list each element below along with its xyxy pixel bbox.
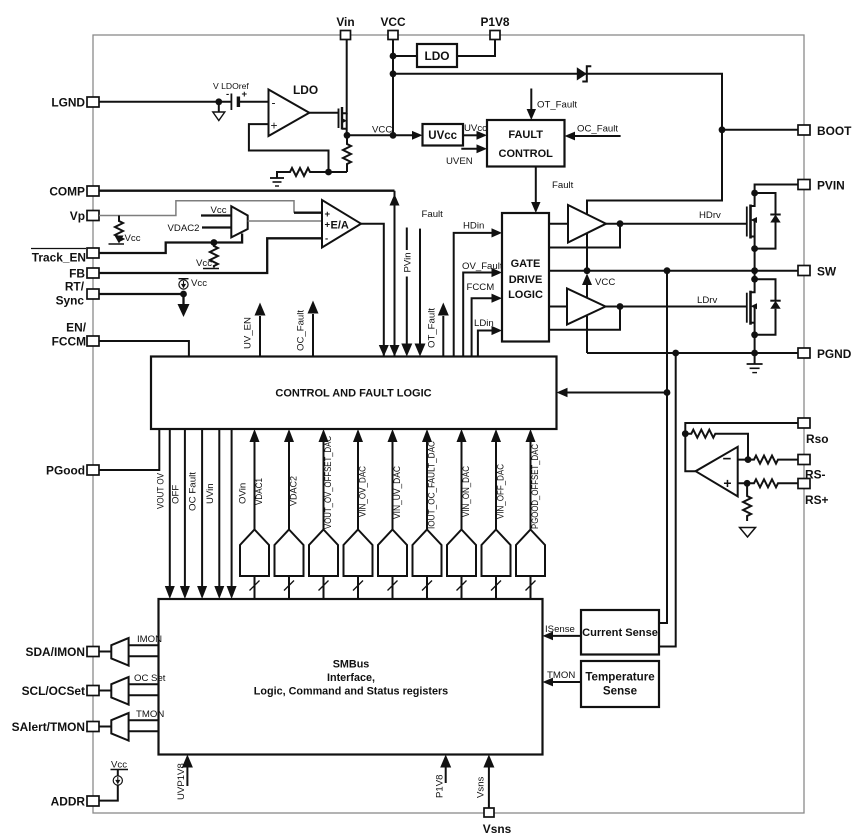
resistor divider top (vertical) bbox=[343, 135, 351, 172]
wire Fault from FAULT CONTROL to GATE DRIVE LOGIC bbox=[535, 167, 537, 204]
DAC mux PGOOD_OFFSET_DAC bbox=[516, 429, 545, 599]
svg-text:PVIN: PVIN bbox=[817, 179, 845, 193]
DAC mux VIN_OV_DAC bbox=[344, 429, 373, 599]
wire OC_Fault into FAULT CONTROL bbox=[574, 135, 621, 137]
svg-text:Vcc: Vcc bbox=[111, 760, 127, 771]
node SW/HS return bbox=[584, 267, 591, 274]
svg-text:-: - bbox=[226, 89, 229, 100]
wire HDin control to gate drive bbox=[454, 233, 493, 357]
svg-text:FCCM: FCCM bbox=[467, 282, 495, 293]
node BOOT junction bbox=[719, 126, 726, 133]
svg-text:LGND: LGND bbox=[51, 96, 85, 110]
chip boundary bbox=[93, 35, 804, 813]
wire PGood from control logic bbox=[99, 429, 159, 470]
wire EN/FCCM to control logic bbox=[99, 341, 189, 357]
pin SAlert/TMON bbox=[12, 720, 99, 734]
svg-text:UVEN: UVEN bbox=[446, 156, 473, 167]
node feedback tap bbox=[325, 169, 332, 176]
svg-text:Vin: Vin bbox=[336, 15, 354, 29]
transistor HS FET bbox=[751, 190, 758, 197]
svg-text:HDrv: HDrv bbox=[699, 210, 721, 221]
svg-text:SMBus: SMBus bbox=[333, 659, 370, 671]
svg-text:UV_EN: UV_EN bbox=[243, 317, 254, 349]
block SMBus bbox=[159, 599, 543, 755]
DAC mux VIN_UV_DAC bbox=[378, 429, 407, 599]
svg-text:CONTROL AND FAULT LOGIC: CONTROL AND FAULT LOGIC bbox=[275, 388, 431, 400]
svg-text:Vcc: Vcc bbox=[196, 258, 212, 269]
svg-text:Sync: Sync bbox=[56, 294, 85, 308]
svg-text:DRIVE: DRIVE bbox=[509, 274, 543, 286]
svg-text:SW: SW bbox=[817, 265, 837, 279]
node VCC/diode bbox=[390, 70, 397, 77]
diode bootstrap bbox=[577, 67, 587, 80]
svg-text:Vcc: Vcc bbox=[125, 233, 141, 244]
svg-text:Fault: Fault bbox=[552, 180, 574, 191]
svg-text:SDA/IMON: SDA/IMON bbox=[26, 645, 85, 659]
ground (signal) below divider bbox=[270, 177, 284, 179]
current source ADDR bbox=[99, 785, 118, 801]
wire OT_Fault out of control logic bbox=[442, 316, 444, 357]
buffer IMON bbox=[99, 651, 111, 653]
wire TMON to SMBus bbox=[552, 681, 581, 683]
wire LS driver return to PGND bbox=[586, 316, 588, 353]
block CONTROL AND FAULT LOGIC bbox=[151, 357, 557, 430]
svg-text:VIN_OFF_DAC: VIN_OFF_DAC bbox=[496, 464, 507, 519]
node VCC/UVcc line bbox=[390, 132, 397, 139]
pin Vin bbox=[336, 15, 354, 40]
wire VCC node to UVcc block bbox=[347, 134, 413, 136]
svg-text:VDAC2: VDAC2 bbox=[289, 476, 300, 506]
wire LDrv bbox=[606, 306, 747, 308]
wire to BOOT pin bbox=[722, 129, 798, 131]
svg-text:VCC: VCC bbox=[595, 277, 615, 288]
op-amp current sense diff amp bbox=[696, 447, 738, 497]
pin Track_EN bbox=[31, 248, 99, 265]
pin VCC bbox=[380, 15, 406, 40]
pin RT/Sync bbox=[56, 280, 99, 308]
pin SW bbox=[798, 265, 837, 279]
resistor Track_EN to Vcc bbox=[210, 243, 218, 268]
wire Vp (gray) to E/A + input bbox=[99, 201, 294, 216]
svg-text:-: - bbox=[272, 96, 276, 110]
svg-text:VIN_ON_DAC: VIN_ON_DAC bbox=[461, 466, 472, 517]
svg-text:PGOOD_OFFSET_DAC: PGOOD_OFFSET_DAC bbox=[530, 444, 541, 529]
pin FB bbox=[69, 267, 99, 281]
ground symbol below VLDOref bbox=[218, 102, 220, 112]
svg-text:Vp: Vp bbox=[70, 209, 85, 223]
wire VCC through bootstrap diode to BOOT bbox=[393, 74, 722, 271]
node VCC (LDO output) bbox=[344, 132, 351, 139]
wire UVcc to FAULT CONTROL bbox=[463, 134, 478, 136]
svg-text:Vcc: Vcc bbox=[211, 205, 227, 216]
svg-text:VIN_UV_DAC: VIN_UV_DAC bbox=[392, 466, 403, 519]
svg-text:FAULT: FAULT bbox=[508, 129, 543, 141]
svg-text:HDin: HDin bbox=[463, 221, 484, 232]
pin Rso bbox=[798, 418, 828, 446]
wire Vcc into mux bbox=[201, 214, 231, 216]
svg-text:CONTROL: CONTROL bbox=[499, 148, 554, 160]
wire VCC to LDO 1.8V block bbox=[393, 55, 417, 57]
wire OVin to SMBus bbox=[231, 429, 233, 586]
svg-text:UVcc: UVcc bbox=[428, 130, 457, 142]
svg-text:−: − bbox=[723, 451, 732, 468]
svg-text:VDAC1: VDAC1 bbox=[254, 478, 265, 505]
svg-text:OC Fault: OC Fault bbox=[188, 472, 199, 511]
svg-text:OT_Fault: OT_Fault bbox=[537, 100, 577, 111]
wire HS source to SW bbox=[754, 249, 756, 280]
block LDO (1.8V) bbox=[417, 44, 457, 67]
mux VDAC2 select bbox=[231, 206, 247, 237]
block GATE DRIVE LOGIC bbox=[502, 213, 549, 342]
svg-text:Rso: Rso bbox=[806, 432, 828, 446]
wire LDO amp output to pass FET gate bbox=[309, 112, 338, 114]
pin Vsns bbox=[483, 808, 512, 836]
resistor Vp pulldown to Vcc bbox=[115, 216, 123, 243]
svg-text:SAlert/TMON: SAlert/TMON bbox=[12, 720, 85, 734]
wire/resistor RS+ input bbox=[738, 479, 798, 487]
wire SW sense to gate drive bbox=[549, 270, 798, 272]
wire LS driver feedback bbox=[549, 307, 620, 330]
wire PGND to Current Sense bbox=[659, 353, 676, 647]
svg-text:OFF: OFF bbox=[170, 485, 181, 504]
wire UVP1V8 into SMBus bbox=[186, 767, 188, 786]
wire E/A output to control logic bbox=[361, 224, 384, 357]
wire OFF to SMBus bbox=[184, 429, 186, 586]
svg-text:OC_Fault: OC_Fault bbox=[296, 310, 307, 351]
wire PGND rail bbox=[587, 352, 798, 354]
svg-text:FB: FB bbox=[69, 267, 85, 281]
wire HDrv bbox=[606, 223, 747, 225]
block UVcc bbox=[423, 124, 464, 146]
resistor feedback bbox=[685, 430, 748, 460]
wire Fault into control logic bbox=[419, 229, 421, 347]
wire VCC rail vertical bbox=[392, 40, 394, 136]
svg-text:Interface,: Interface, bbox=[327, 672, 375, 684]
buffer OCSet bbox=[99, 690, 111, 692]
pin SDA/IMON bbox=[26, 645, 99, 659]
svg-text:VCC: VCC bbox=[380, 15, 406, 29]
svg-text:-: - bbox=[325, 234, 328, 245]
svg-text:PVin: PVin bbox=[402, 252, 413, 272]
svg-text:UVin: UVin bbox=[205, 483, 216, 504]
wire VDAC2 into mux bbox=[202, 226, 231, 228]
wire UV_EN out of control logic bbox=[259, 316, 261, 357]
wire OT_Fault into FAULT CONTROL bbox=[530, 89, 532, 111]
svg-text:+: + bbox=[242, 89, 248, 100]
svg-text:+: + bbox=[271, 119, 278, 133]
wire PVin into control logic bbox=[406, 228, 408, 347]
svg-text:RT/: RT/ bbox=[65, 280, 85, 294]
pin SCL/OCSet bbox=[22, 684, 99, 698]
block Temperature Sense bbox=[581, 661, 659, 707]
svg-text:TMON: TMON bbox=[547, 670, 575, 681]
pin EN/FCCM bbox=[52, 321, 99, 349]
wire mux output to E/A (gray) bbox=[248, 220, 322, 222]
node LGND/VLDOref junction bbox=[215, 98, 222, 105]
svg-text:E/A: E/A bbox=[331, 219, 349, 231]
ground (open) below RS+ resistor bbox=[740, 528, 756, 538]
svg-text:OT_Fault: OT_Fault bbox=[427, 308, 438, 348]
DAC mux VDAC2 bbox=[275, 429, 304, 599]
buffer TMON bbox=[99, 726, 111, 728]
wire OV_Fault control to gate drive bbox=[463, 273, 493, 357]
svg-text:EN/: EN/ bbox=[66, 321, 87, 335]
svg-text:UVP1V8: UVP1V8 bbox=[176, 763, 187, 800]
svg-text:Temperature: Temperature bbox=[585, 671, 655, 684]
transistor LS FET bbox=[751, 276, 758, 283]
svg-text:Fault: Fault bbox=[422, 209, 444, 220]
svg-text:OC Set: OC Set bbox=[134, 673, 166, 684]
pin PVIN bbox=[798, 179, 845, 193]
svg-text:LDrv: LDrv bbox=[697, 295, 717, 306]
svg-text:Vsns: Vsns bbox=[476, 776, 487, 798]
svg-text:ADDR: ADDR bbox=[51, 795, 86, 809]
wire VOUT OV to SMBus bbox=[169, 429, 171, 586]
wire PVIN to HS FET drain bbox=[755, 185, 798, 194]
pin PGood bbox=[46, 464, 99, 478]
svg-text:UVcc: UVcc bbox=[464, 123, 487, 134]
DAC mux VIN_OFF_DAC bbox=[482, 429, 511, 599]
svg-text:COMP: COMP bbox=[49, 185, 85, 199]
wire VCC supply to LS driver bbox=[586, 285, 588, 297]
svg-text:Vcc: Vcc bbox=[191, 278, 207, 289]
pin ADDR bbox=[51, 795, 99, 809]
diode LS body bbox=[755, 279, 776, 335]
pin BOOT bbox=[798, 124, 852, 138]
svg-text:Sense: Sense bbox=[603, 685, 638, 698]
wire ISense tap into control logic bbox=[566, 392, 667, 394]
wire COMP vertical to control logic bbox=[394, 191, 396, 357]
wire SW to Current Sense bbox=[659, 271, 667, 623]
svg-text:VIN_OV_DAC: VIN_OV_DAC bbox=[358, 466, 369, 517]
op-amp U-LDO bbox=[269, 90, 310, 137]
wire/resistor RS- input bbox=[738, 456, 798, 464]
transistor pass FET bbox=[338, 109, 340, 129]
svg-text:Track_EN: Track_EN bbox=[32, 251, 86, 265]
resistor RS+ to ground bbox=[743, 483, 751, 521]
svg-text:VDAC2: VDAC2 bbox=[168, 223, 200, 234]
op-amp E/A bbox=[322, 200, 361, 248]
node feedback bbox=[682, 430, 689, 437]
wire LS source to PGND bbox=[754, 335, 756, 353]
wire VLDOref to LDO amp inverting input bbox=[238, 101, 268, 103]
svg-text:P1V8: P1V8 bbox=[435, 775, 446, 798]
wire OC Fault to SMBus bbox=[201, 429, 203, 586]
pin Vp bbox=[70, 209, 99, 223]
wire LDO block to P1V8 pin bbox=[457, 40, 495, 57]
svg-text:VCC: VCC bbox=[372, 125, 392, 136]
wire feedback to LDO + input bbox=[249, 124, 329, 172]
block FAULT CONTROL bbox=[487, 120, 565, 167]
wire COMP bbox=[99, 190, 395, 192]
svg-text:VOUT_OV_OFFSET_DAC: VOUT_OV_OFFSET_DAC bbox=[323, 436, 334, 529]
resistor divider bottom (horizontal) bbox=[277, 168, 347, 178]
block Current Sense bbox=[581, 610, 659, 655]
pin RS- bbox=[798, 455, 826, 482]
svg-text:IMON: IMON bbox=[137, 634, 162, 645]
wire Track_EN to mux select bbox=[99, 234, 242, 254]
driver HS bbox=[568, 205, 606, 243]
svg-text:RS+: RS+ bbox=[805, 493, 829, 507]
pin RS+ bbox=[798, 479, 829, 508]
svg-text:ISense: ISense bbox=[545, 624, 575, 635]
DAC mux VDAC1 bbox=[240, 429, 269, 599]
svg-text:Logic, Command and Status regi: Logic, Command and Status registers bbox=[254, 686, 448, 698]
pin LGND bbox=[51, 96, 99, 110]
wire FCCM control to gate drive bbox=[472, 298, 493, 356]
diode HS body bbox=[755, 193, 776, 249]
wire LGND to VLDOref bbox=[99, 101, 231, 103]
current source RT/Sync bbox=[99, 293, 184, 295]
svg-text:LDO: LDO bbox=[424, 49, 449, 63]
wire gate drive to HS driver input bbox=[549, 223, 568, 225]
node VCC/LDO18 bbox=[390, 53, 397, 60]
svg-text:PGND: PGND bbox=[817, 347, 852, 361]
DAC mux IOUT_OC_FAULT_DAC bbox=[413, 429, 442, 599]
svg-text:GATE: GATE bbox=[511, 258, 541, 270]
arrow RT/Sync current sink bbox=[182, 294, 184, 305]
wire UVin to SMBus bbox=[218, 429, 220, 586]
svg-text:IOUT_OC_FAULT_DAC: IOUT_OC_FAULT_DAC bbox=[427, 441, 438, 529]
svg-text:OC_Fault: OC_Fault bbox=[577, 124, 618, 135]
wire gate drive to LS driver input bbox=[549, 306, 567, 308]
wire P1V8 into SMBus bbox=[445, 767, 447, 783]
wire UVEN into FAULT CONTROL bbox=[461, 148, 478, 150]
wire ISense to SMBus bbox=[552, 635, 581, 637]
driver LS bbox=[567, 289, 606, 325]
svg-text:OV_Fault: OV_Fault bbox=[462, 261, 503, 272]
svg-text:Vsns: Vsns bbox=[483, 822, 512, 836]
wire LDin control to gate drive bbox=[478, 331, 493, 357]
svg-text:LDO: LDO bbox=[293, 83, 318, 97]
svg-text:BOOT: BOOT bbox=[817, 124, 852, 138]
capacitor VLDOref bbox=[230, 94, 232, 111]
svg-text:LOGIC: LOGIC bbox=[508, 289, 543, 301]
node Track_EN pullup bbox=[211, 239, 218, 246]
svg-text:PGood: PGood bbox=[46, 464, 85, 478]
svg-text:Current Sense: Current Sense bbox=[582, 627, 658, 639]
svg-text:+: + bbox=[723, 475, 731, 491]
svg-text:FCCM: FCCM bbox=[52, 335, 86, 349]
svg-text:LDin: LDin bbox=[474, 318, 494, 329]
svg-text:OVin: OVin bbox=[238, 483, 249, 504]
pin PGND bbox=[798, 347, 852, 361]
wire FB to E/A inverting input bbox=[99, 238, 322, 273]
wire HS driver return to SW bbox=[586, 234, 588, 271]
svg-text:SCL/OCSet: SCL/OCSet bbox=[22, 684, 85, 698]
svg-text:TMON: TMON bbox=[136, 709, 164, 720]
ground PGND bbox=[754, 353, 756, 364]
wire Rso to diff amp output bbox=[685, 423, 798, 471]
wire OC_Fault out of control logic bbox=[312, 314, 314, 357]
pin COMP bbox=[49, 185, 99, 199]
DAC mux VIN_ON_DAC bbox=[447, 429, 476, 599]
wire Vsns into SMBus bbox=[488, 767, 490, 808]
wire HS driver feedback bbox=[549, 224, 620, 248]
DAC mux VOUT_OV_OFFSET_DAC bbox=[309, 429, 338, 599]
svg-text:VOUT OV: VOUT OV bbox=[155, 473, 166, 509]
pin P1V8 bbox=[480, 15, 509, 40]
svg-text:P1V8: P1V8 bbox=[480, 15, 509, 29]
